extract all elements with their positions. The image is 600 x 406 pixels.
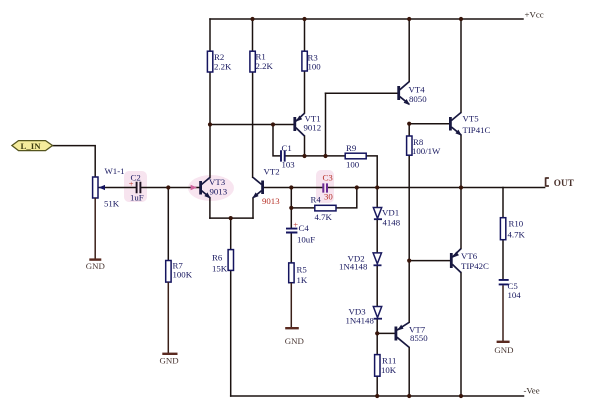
svg-text:4148: 4148 bbox=[383, 218, 401, 228]
svg-text:R9: R9 bbox=[346, 143, 357, 153]
ground under R7 bbox=[160, 354, 179, 366]
wire R10 to C5 bbox=[502, 240, 504, 279]
svg-text:R4: R4 bbox=[311, 195, 322, 205]
junction output emitters node bbox=[459, 185, 463, 189]
junction node A C3 left bbox=[289, 185, 293, 189]
svg-text:30: 30 bbox=[324, 192, 333, 202]
svg-text:8050: 8050 bbox=[409, 94, 427, 104]
wire node to R11 bbox=[376, 333, 378, 354]
junction VD3 VT7 base R11 bbox=[375, 331, 379, 335]
resistor R6 bbox=[212, 250, 234, 274]
capacitor C2 bbox=[129, 173, 144, 203]
wire VT7 collector to rail bbox=[408, 348, 410, 397]
potentiometer W1-1 bbox=[93, 166, 125, 209]
junction R4 left lead bbox=[289, 206, 293, 210]
svg-text:VT6: VT6 bbox=[461, 251, 478, 261]
transistor VT3 bbox=[199, 177, 227, 199]
svg-text:1uF: 1uF bbox=[130, 193, 144, 203]
ground under C5 bbox=[494, 342, 513, 355]
wire VD2 to VD3 bbox=[376, 266, 378, 307]
svg-text:TIP42C: TIP42C bbox=[461, 261, 489, 271]
junction node B C3 right bbox=[355, 185, 359, 189]
transistor VT4 bbox=[397, 82, 427, 106]
resistor R9 bbox=[345, 143, 366, 170]
junction diode chain top bbox=[375, 185, 379, 189]
svg-text:VT3: VT3 bbox=[209, 177, 226, 187]
svg-text:C4: C4 bbox=[299, 223, 310, 233]
wire R3 top drop bbox=[304, 19, 306, 51]
junction VT4 emitter VT5 base R8 bbox=[407, 122, 411, 126]
svg-text:L_IN: L_IN bbox=[21, 141, 42, 151]
wire mid line VT2 base to C3 bbox=[264, 187, 323, 189]
svg-text:-Vee: -Vee bbox=[524, 386, 540, 396]
resistor R5 bbox=[289, 263, 308, 285]
wire C4 to R5 bbox=[290, 233, 292, 263]
wire VT1 collector drop bbox=[304, 136, 306, 156]
svg-text:+Vcc: +Vcc bbox=[525, 10, 544, 20]
wire R7 top bbox=[167, 188, 169, 261]
wire R7 bottom to GND bbox=[167, 282, 169, 353]
transistor VT6 bbox=[450, 249, 489, 273]
svg-text:1N4148: 1N4148 bbox=[339, 262, 368, 272]
wire C1 right to R9 left bbox=[286, 155, 346, 157]
resistor R1 bbox=[250, 51, 274, 72]
wire VT7 base lead bbox=[377, 332, 395, 334]
transistor VT1 bbox=[293, 113, 321, 136]
wire VT4 base line bbox=[326, 92, 398, 94]
resistor R11 bbox=[375, 355, 397, 377]
resistor R8 bbox=[407, 136, 441, 156]
svg-text:OUT: OUT bbox=[554, 178, 574, 188]
svg-text:100: 100 bbox=[308, 62, 322, 72]
port flag L_IN bbox=[12, 141, 53, 151]
svg-text:VT5: VT5 bbox=[463, 114, 480, 124]
svg-text:104: 104 bbox=[508, 290, 522, 300]
junction R11 to Vee rail bbox=[375, 394, 379, 398]
wire R2 bottom to VT3 collector bbox=[209, 72, 211, 178]
wire R4 left lead bbox=[291, 207, 315, 209]
capacitor C5 bbox=[499, 280, 522, 300]
svg-text:100/1W: 100/1W bbox=[412, 146, 441, 156]
svg-text:VT4: VT4 bbox=[409, 85, 426, 95]
resistor R7 bbox=[166, 261, 193, 283]
svg-text:C3: C3 bbox=[323, 173, 334, 183]
svg-text:1N4148: 1N4148 bbox=[346, 315, 375, 325]
junction VT7 collector to Vee rail bbox=[407, 394, 411, 398]
capacitor C3 bbox=[323, 173, 334, 202]
svg-text:R10: R10 bbox=[509, 219, 524, 229]
junction VT1 base line at C1 branch bbox=[271, 122, 275, 126]
wire C5 bottom to GND bbox=[502, 285, 504, 341]
svg-text:51K: 51K bbox=[104, 199, 120, 209]
wire +Vcc top rail bbox=[210, 18, 523, 20]
capacitor C4 bbox=[286, 220, 315, 245]
wire C1 branch corner bbox=[273, 125, 280, 156]
wire VT2 emitter drop bbox=[252, 198, 254, 218]
svg-text:4.7K: 4.7K bbox=[508, 230, 526, 240]
wire R4 right lead up bbox=[336, 188, 357, 208]
resistor R4 bbox=[311, 195, 337, 223]
pink pin arrow at VT3 base bbox=[191, 185, 197, 191]
svg-text:GND: GND bbox=[86, 261, 105, 271]
wire VD3 to node bbox=[376, 319, 378, 334]
svg-text:1K: 1K bbox=[297, 275, 308, 285]
wire C4 branch upper bbox=[290, 188, 292, 229]
wire mid line C3 to OUT bbox=[328, 187, 545, 189]
wire VT4 base drop bbox=[325, 93, 327, 156]
wire R9 right down to mid line bbox=[366, 156, 377, 188]
wire R10 top bbox=[502, 188, 504, 218]
diode VD3 bbox=[346, 306, 383, 325]
junction VT5 collector to Vcc rail bbox=[459, 17, 463, 21]
svg-text:2.2K: 2.2K bbox=[214, 62, 232, 72]
junction R3 to Vcc rail bbox=[302, 17, 306, 21]
resistor R3 bbox=[302, 51, 321, 71]
svg-text:R1: R1 bbox=[256, 52, 266, 62]
svg-text:R11: R11 bbox=[382, 356, 396, 366]
wire VT6 collector to rail bbox=[460, 273, 462, 397]
diode VD1 bbox=[373, 208, 400, 228]
junction VT6 base node bbox=[407, 259, 411, 263]
junction VT4 base drop node bbox=[323, 154, 327, 158]
svg-text:R5: R5 bbox=[297, 265, 308, 275]
wire R2 top drop bbox=[209, 19, 211, 51]
svg-text:2.2K: 2.2K bbox=[256, 61, 274, 71]
port symbol OUT bbox=[546, 177, 574, 187]
ground under R5 bbox=[285, 328, 304, 346]
svg-text:9013: 9013 bbox=[262, 196, 280, 206]
svg-text:C1: C1 bbox=[282, 143, 292, 153]
junction emitter join to R6 bbox=[229, 216, 233, 220]
svg-text:100K: 100K bbox=[173, 270, 193, 280]
wire R8 bottom long drop to VT7 emitter bbox=[408, 155, 410, 322]
wire VT6 base lead bbox=[409, 260, 450, 262]
svg-text:GND: GND bbox=[494, 345, 513, 355]
junction VT1 base line at R2 branch bbox=[208, 122, 212, 126]
junction VT1 collector node bbox=[302, 154, 306, 158]
resistor R2 bbox=[207, 51, 232, 72]
wire R5 bottom to GND bbox=[290, 283, 292, 328]
wire VT1 base line bbox=[210, 124, 294, 126]
svg-text:W1-1: W1-1 bbox=[105, 166, 125, 176]
wire R3 bottom to VT1 emitter bbox=[304, 71, 306, 113]
diode VD2 bbox=[339, 253, 382, 272]
capacitor C1 bbox=[281, 143, 295, 170]
wire R6 bottom to rail bbox=[230, 270, 232, 396]
wire R6 top bbox=[230, 218, 232, 250]
svg-text:GND: GND bbox=[160, 355, 179, 365]
wire VT5 collector to rail bbox=[460, 19, 462, 112]
junction VT6 collector to Vee rail bbox=[459, 394, 463, 398]
svg-text:8550: 8550 bbox=[410, 333, 428, 343]
wire VD1 to VD2 bbox=[376, 220, 378, 253]
wire emitter join line bbox=[210, 217, 253, 219]
resistor R10 bbox=[500, 218, 525, 240]
svg-text:GND: GND bbox=[285, 336, 304, 346]
transistor VT7 bbox=[395, 322, 429, 347]
pink highlight C2 bbox=[124, 171, 147, 202]
svg-text:4.7K: 4.7K bbox=[315, 212, 333, 222]
svg-text:9012: 9012 bbox=[304, 123, 322, 133]
wire R1 bottom to VT2 collector bbox=[252, 72, 254, 177]
wire pot bottom to GND bbox=[94, 198, 96, 259]
svg-text:R6: R6 bbox=[212, 253, 223, 263]
wire pot wiper to C2 bbox=[98, 187, 135, 189]
wire -Vee bottom rail bbox=[231, 395, 524, 397]
wire VT5 emitter VT6 emitter vertical bbox=[460, 135, 462, 249]
svg-text:100: 100 bbox=[346, 160, 360, 170]
wire R11 bottom to rail bbox=[376, 376, 378, 396]
wire VT3 emitter drop bbox=[209, 198, 211, 218]
wire R1 top drop bbox=[252, 19, 254, 51]
junction R7 branch on input node bbox=[166, 185, 170, 189]
wire VT5 base lead bbox=[409, 123, 449, 125]
junction R1 to Vcc rail bbox=[250, 17, 254, 21]
pink highlight VT3 bbox=[188, 175, 234, 201]
pink highlight C3 bbox=[316, 170, 334, 203]
wire VT4 collector to rail bbox=[408, 19, 410, 82]
ground under W1-1 bbox=[86, 260, 105, 271]
transistor VT5 bbox=[449, 113, 490, 136]
svg-text:TIP41C: TIP41C bbox=[463, 125, 491, 135]
wire diode chain VD1 top bbox=[376, 188, 378, 208]
transistor VT2 bbox=[252, 167, 280, 207]
wire VT4 emitter to R8 bbox=[408, 124, 410, 136]
svg-text:9013: 9013 bbox=[210, 187, 228, 197]
svg-text:10uF: 10uF bbox=[297, 235, 315, 245]
svg-text:R2: R2 bbox=[214, 52, 224, 62]
svg-text:15K: 15K bbox=[212, 264, 228, 274]
svg-text:103: 103 bbox=[282, 160, 296, 170]
svg-text:+: + bbox=[129, 178, 134, 188]
junction VT4 collector to Vcc rail bbox=[407, 17, 411, 21]
wire C2 to VT3 base bbox=[141, 187, 199, 189]
svg-text:VD1: VD1 bbox=[382, 208, 399, 218]
svg-text:VT2: VT2 bbox=[264, 167, 280, 177]
svg-text:10K: 10K bbox=[381, 365, 397, 375]
wire L_IN to pot top bbox=[53, 146, 96, 177]
